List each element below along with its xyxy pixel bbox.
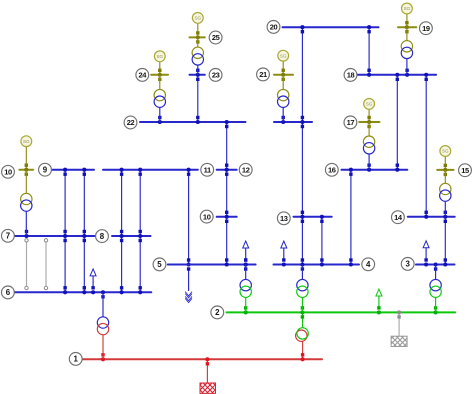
busbar 16 — [342, 169, 408, 171]
connections bus 21 — [282, 69, 285, 72]
load on bus 6 — [90, 269, 96, 287]
line bus22 to bus12 — [226, 122, 228, 170]
line bus11 to bus5 — [188, 170, 190, 265]
busbar 6 — [14, 291, 151, 293]
load on bus 3 — [423, 241, 429, 260]
T2-1 stub upper — [302, 312, 304, 328]
busbar 10 gen bus — [19, 169, 33, 171]
line bus20 to bus18 — [368, 27, 370, 75]
svg-text:1: 1 — [74, 355, 79, 364]
transformer T bus25 to bus23 — [192, 37, 203, 74]
svg-text:SG: SG — [23, 139, 30, 144]
transformer T gen10 to bus7 — [21, 170, 32, 236]
line bus16 to bus4 — [350, 170, 352, 265]
svg-text:25: 25 — [212, 33, 220, 42]
open line bus7 to bus6 (gray 1) — [26, 240, 28, 288]
connections bus 25 — [196, 31, 199, 34]
busbar 1 — [82, 358, 322, 360]
generator G17 — [364, 99, 375, 110]
line bus23 to bus22 — [197, 75, 199, 122]
load on bus 4 — [281, 241, 287, 260]
busbar 23 — [190, 74, 205, 76]
node label 12 — [239, 163, 252, 176]
line bus14 to bus3 — [444, 217, 446, 265]
node label 16 — [325, 163, 338, 176]
line bus20 to bus21b — [301, 27, 303, 122]
connections bus 23 — [196, 69, 200, 81]
busbar 17 (gen bus) — [359, 121, 379, 123]
connections bus 14 — [424, 211, 428, 219]
node label 21 — [257, 68, 270, 81]
busbar 10 — [217, 216, 237, 218]
node label 1 — [69, 353, 82, 366]
svg-text:10: 10 — [4, 168, 12, 177]
transformer T bus5 to bus2 — [240, 265, 251, 313]
gen G24 stub — [159, 62, 161, 75]
node label 17 — [344, 116, 357, 129]
line bus11 to bus8 (left circuit) — [121, 170, 123, 236]
svg-text:16: 16 — [328, 166, 336, 175]
connections bus 2 — [244, 306, 248, 314]
connections bus 21b — [281, 116, 285, 124]
gen G19 stub — [406, 14, 408, 27]
line bus7 to bus6 (right circuit) — [83, 236, 85, 292]
gen G21 stub — [282, 61, 284, 75]
connections bus 11 — [120, 168, 124, 176]
transformer T bus17 to bus16 — [363, 122, 374, 170]
open line bus7 to bus6 (gray 2) — [45, 240, 47, 288]
node label 3 — [401, 258, 414, 271]
busbar 19 (gen bus) — [398, 26, 416, 28]
line bus9 to bus7 (left circuit) — [64, 170, 66, 236]
node label 10 (generator bus left) — [2, 165, 15, 178]
load stub on bus1 — [206, 359, 208, 383]
generator G25 — [192, 13, 203, 24]
node label 5 — [153, 258, 166, 271]
generator G10 — [21, 136, 32, 147]
generator G21 — [278, 50, 289, 61]
svg-text:22: 22 — [127, 118, 135, 127]
connections bus 22 — [158, 116, 162, 124]
node label 13 — [277, 212, 290, 225]
generator G15 — [440, 146, 451, 157]
gen G10 stub — [25, 147, 27, 170]
svg-text:SG: SG — [156, 54, 163, 59]
busbar 21b — [274, 121, 312, 123]
transformer T bus2 to bus1 — [296, 328, 309, 342]
busbar 24 (gen bus) — [151, 74, 168, 76]
svg-text:SG: SG — [442, 149, 449, 154]
svg-text:14: 14 — [394, 213, 403, 222]
svg-text:10: 10 — [203, 212, 211, 221]
line bus9 to bus7 (right circuit) — [83, 170, 85, 236]
load on bus 5 — [243, 241, 249, 260]
busbar 21 (gen bus) — [274, 74, 293, 76]
node label 7 — [2, 229, 15, 242]
node label 14 — [392, 211, 405, 224]
busbar 11 — [103, 169, 198, 171]
line bus18 to bus16 — [396, 75, 398, 170]
svg-text:SG: SG — [404, 6, 411, 11]
connections bus 20 — [300, 25, 304, 33]
node label 18 — [344, 69, 357, 82]
line bus12 to bus10 — [226, 170, 228, 217]
node label 25 — [209, 31, 222, 44]
busbar 18 — [357, 74, 436, 76]
connections bus 24 — [158, 69, 161, 72]
generator G19 — [402, 3, 413, 14]
svg-text:12: 12 — [242, 166, 250, 175]
svg-text:4: 4 — [366, 260, 371, 269]
busbar 4 — [274, 264, 360, 266]
transformer T bus3 to bus2 — [430, 265, 441, 313]
gen G15 stub — [444, 156, 446, 170]
busbar 13 — [294, 216, 332, 218]
svg-text:9: 9 — [43, 166, 48, 175]
svg-text:3: 3 — [406, 260, 411, 269]
line bus11 to bus8 (right circuit) — [139, 170, 141, 236]
node label 9 — [39, 163, 52, 176]
connections bus 9 — [63, 168, 67, 176]
node label 15 — [459, 164, 472, 177]
external grid below bus 5 — [185, 270, 192, 303]
busbar 2 — [227, 311, 456, 313]
svg-text:18: 18 — [347, 71, 355, 80]
svg-text:24: 24 — [139, 71, 148, 80]
svg-text:7: 7 — [6, 232, 11, 241]
connections bus 5 — [225, 258, 229, 266]
transformer T bus19 to bus18 — [401, 27, 412, 75]
node label 10 (mid) — [200, 210, 213, 223]
svg-text:13: 13 — [280, 214, 288, 223]
busbar 14 — [408, 216, 455, 218]
line bus21b to bus13 — [301, 122, 303, 217]
svg-text:6: 6 — [6, 288, 11, 297]
busbar 22 — [140, 121, 246, 123]
svg-text:21: 21 — [259, 70, 267, 79]
connections bus 4 — [300, 258, 304, 270]
connections bus 17 — [367, 116, 370, 119]
line bus8 to bus6 (left circuit) — [121, 236, 123, 292]
svg-text:19: 19 — [422, 24, 430, 33]
svg-text:15: 15 — [461, 166, 469, 175]
busbar 12 — [217, 169, 237, 171]
svg-text:SG: SG — [280, 53, 287, 58]
connections bus 6 — [63, 286, 67, 294]
busbar 15 (gen bus) — [437, 169, 453, 171]
connections bus 15 — [444, 164, 447, 167]
line bus13 to bus4 (via) — [301, 217, 303, 265]
node label 20 — [267, 21, 280, 34]
svg-text:17: 17 — [347, 118, 355, 127]
node label 22 — [124, 116, 137, 129]
svg-text:8: 8 — [100, 232, 105, 241]
busbar 9 — [53, 169, 95, 171]
connections bus 7-8 — [25, 230, 28, 233]
svg-text:SG: SG — [194, 16, 201, 21]
busbar 7 — [14, 235, 95, 237]
busbar 25 (gen bus) — [190, 36, 205, 38]
busbar 20 — [283, 26, 379, 28]
shunt filter (out of service) on bus 2 — [391, 336, 407, 346]
transformer T bus6 to bus1 — [97, 292, 108, 359]
svg-text:20: 20 — [270, 23, 278, 32]
transformer T bus4 to bus2 — [297, 265, 308, 313]
line bus7 to bus6 (left circuit) — [64, 236, 66, 292]
connections bus 19 — [405, 21, 408, 24]
busbar 8 — [112, 235, 151, 237]
node label 11 — [201, 163, 214, 176]
T2-1 stub lower — [302, 341, 304, 359]
svg-text:2: 2 — [215, 308, 220, 317]
connections bus 16 — [349, 168, 353, 176]
node label 23 — [209, 69, 222, 82]
connections bus 1 — [101, 353, 105, 361]
transformer T bus24 to bus22 — [154, 75, 165, 122]
gen G17 stub — [368, 109, 370, 122]
shunt stub on bus2 — [398, 312, 400, 336]
line bus8 to bus6 (right circuit) — [139, 236, 141, 292]
svg-text:5: 5 — [157, 260, 162, 269]
svg-text:23: 23 — [212, 71, 220, 80]
line bus18 to bus14 — [425, 75, 427, 217]
line bus10 to bus5 — [226, 217, 228, 265]
transformer T bus21 to bus21b — [278, 75, 289, 122]
svg-text:11: 11 — [204, 166, 211, 175]
gen G25 stub — [197, 23, 199, 37]
node label 2 — [211, 306, 224, 319]
node label 8 — [96, 230, 109, 243]
busbar 3 — [416, 264, 455, 266]
busbar 5 — [168, 264, 256, 266]
connections bus 18 — [367, 69, 371, 77]
load box on bus 1 — [200, 383, 216, 393]
line bus13 to bus4 — [321, 217, 323, 265]
node label 6 — [2, 286, 15, 299]
connections bus 12 — [225, 164, 229, 176]
connections bus 13 — [300, 211, 304, 223]
connections bus 3 — [443, 258, 447, 266]
node label 24 — [136, 69, 149, 82]
generator G24 — [154, 51, 165, 62]
connections gen bus 10 — [25, 164, 28, 167]
node label 4 — [362, 258, 375, 271]
load on bus 2 — [376, 289, 382, 307]
connections bus 10 mid — [225, 211, 229, 223]
transformer T bus15 to bus14 — [440, 170, 451, 217]
node label 19 — [420, 22, 433, 35]
svg-text:SG: SG — [366, 102, 373, 107]
